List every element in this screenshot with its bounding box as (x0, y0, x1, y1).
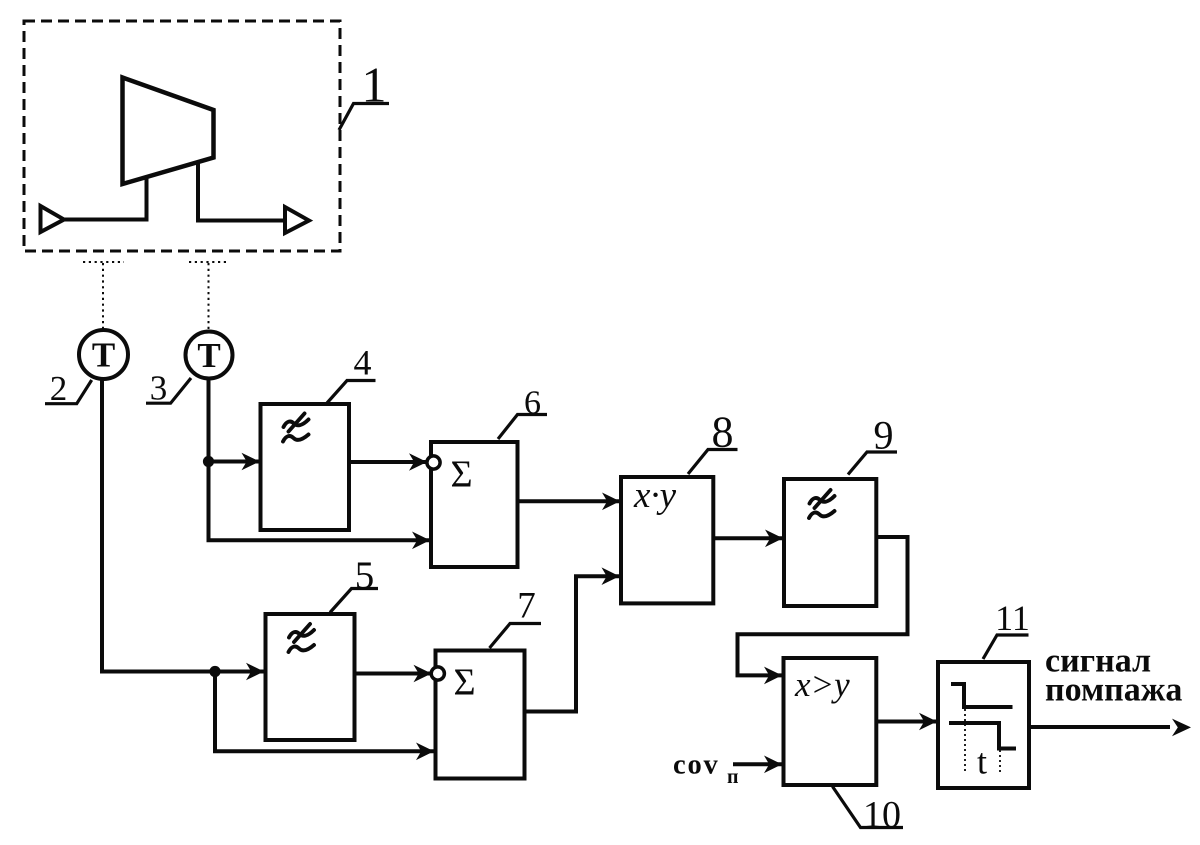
wire into block 4 (209, 460, 260, 464)
label 2 leader line (45, 380, 92, 404)
block 9 filter symbol (crossed tilde over tilde) (809, 490, 835, 518)
svg-text:9: 9 (874, 413, 894, 458)
wire block4 output to block 6 (349, 460, 427, 464)
compressor trapezoid symbol (123, 78, 214, 185)
label 8 leader line (688, 450, 738, 475)
inlet arrow triangle (41, 206, 65, 232)
block 9 rectangle (filter) (784, 479, 876, 606)
label 4 leader line (327, 381, 376, 404)
svg-text:8: 8 (712, 408, 734, 457)
svg-text:п: п (727, 766, 739, 788)
block 5 filter symbol (crossed tilde over tilde) (289, 624, 315, 652)
block 7 inverting input circle (431, 667, 444, 680)
svg-text:T: T (197, 336, 220, 375)
label 6 leader line (498, 415, 547, 440)
block 11 dotted time guides (965, 709, 1000, 772)
block 6 inverting input circle (427, 456, 440, 469)
block 7 rectangle (summator) (436, 651, 525, 779)
outlet duct wire (198, 162, 285, 221)
svg-text:T: T (92, 336, 115, 375)
wire from sensor 3 down (207, 379, 211, 462)
wire block7 output up to block 8 lower input (525, 576, 620, 711)
inlet duct wire (63, 177, 147, 220)
block 6 rectangle (summator) (431, 442, 518, 567)
svg-text:Σ: Σ (450, 454, 472, 496)
wire block8 output to block 9 (713, 536, 783, 540)
svg-text:t: t (977, 742, 987, 782)
wire block10 output to block 11 (876, 720, 937, 724)
wire branch from node to block 7 lower input (215, 672, 434, 752)
temperature sensor 2 circle (79, 330, 128, 379)
label 9 leader line (848, 452, 897, 475)
block 11 delayed step waveform (949, 723, 1016, 749)
temperature sensor 3 circle (186, 332, 233, 379)
block 10 rectangle (comparator) (784, 658, 877, 785)
label 5 leader line (330, 589, 378, 613)
label 11 leader line (983, 635, 1029, 659)
node junction dot (sensor3 branch) (203, 456, 214, 467)
svg-text:Σ: Σ (453, 662, 475, 704)
svg-text:3: 3 (150, 369, 168, 408)
block 4 rectangle (filter) (261, 404, 350, 530)
svg-text:5: 5 (355, 554, 375, 597)
svg-text:4: 4 (354, 343, 372, 383)
block 4 filter symbol (crossed tilde over tilde) (283, 414, 309, 442)
svg-text:помпажа: помпажа (1045, 672, 1182, 709)
block 11 rectangle (delay element) (938, 662, 1029, 788)
block 8 rectangle (multiplier) (621, 477, 713, 603)
svg-text:x>y: x>y (794, 665, 850, 704)
label 3 leader line (146, 378, 191, 403)
svg-text:7: 7 (517, 586, 536, 627)
block 5 rectangle (filter) (266, 614, 355, 740)
wire cov threshold input into block 10 (733, 762, 782, 766)
label 1 leader line (339, 104, 389, 131)
dotted tap lines from enclosure to sensors (83, 262, 228, 331)
outlet arrow triangle (285, 207, 309, 233)
svg-text:x·y: x·y (633, 475, 677, 516)
compressor unit dashed enclosure (block 1) (24, 21, 340, 251)
wire block9 output looping to block 10 upper input (738, 537, 908, 675)
svg-text:11: 11 (995, 598, 1030, 638)
wire block6 output to block 8 (518, 499, 621, 503)
node junction dot (sensor2 branch) (209, 666, 220, 677)
svg-text:6: 6 (524, 385, 541, 422)
block 11 input step waveform (951, 684, 1013, 707)
svg-text:cov: cov (673, 750, 720, 781)
svg-text:1: 1 (362, 57, 387, 113)
svg-text:2: 2 (50, 369, 68, 408)
label 7 leader line (490, 624, 542, 649)
svg-text:10: 10 (863, 794, 901, 836)
output arrowhead (1172, 719, 1191, 737)
wire from sensor 2 down and into block 5 (102, 379, 264, 672)
label 10 leader line (833, 787, 904, 828)
wire block5 output to block 7 (355, 672, 432, 676)
wire branch from node to block 6 lower input (209, 462, 431, 541)
output wire (surge signal) (1029, 725, 1170, 729)
